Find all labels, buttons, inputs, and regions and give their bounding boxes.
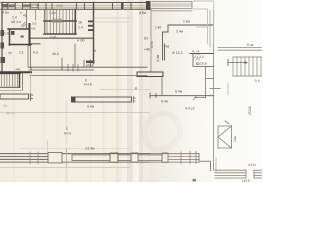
stair S1 mid rail	[44, 20, 76, 22]
svg-text:4.9: 4.9	[33, 51, 38, 55]
bottom band window boxes	[72, 155, 110, 161]
stair S2 right wall	[19, 74, 21, 88]
svg-text:13.3м: 13.3м	[85, 147, 95, 151]
band crossing ticks	[189, 152, 191, 164]
stair S2 bottom rail	[0, 86, 20, 88]
svg-text:ч.б.: ч.б.	[31, 27, 36, 31]
hall right wall	[213, 11, 215, 171]
hall top band faint lines	[152, 1, 192, 3]
stair S3 treads	[233, 57, 261, 76]
svg-text:16: 16	[78, 21, 82, 25]
top band dividers	[8, 3, 131, 10]
section bar 1 end mark	[31, 94, 34, 101]
faint building outline inner	[193, 9, 208, 44]
svg-text:2.Чб: 2.Чб	[50, 35, 57, 39]
svg-text:НЧ б: НЧ б	[64, 132, 71, 136]
faint line above band	[20, 148, 130, 150]
closet annex vertical	[205, 67, 207, 99]
hall right wall faint	[209, 11, 211, 47]
corridor band ticks	[68, 65, 78, 72]
svg-text:4.4м: 4.4м	[156, 54, 160, 62]
faint lines right of building	[94, 17, 130, 19]
svg-text:Ф 16.2: Ф 16.2	[172, 51, 183, 55]
bottom band lines mid	[62, 154, 150, 162]
hall left faint wall	[150, 9, 152, 73]
faint line below band	[0, 166, 130, 168]
top window band mid lines	[2, 4, 148, 6]
svg-text:9.4м: 9.4м	[175, 90, 183, 94]
svg-text:1.4б: 1.4б	[155, 26, 161, 30]
stair S1 treads upper flight	[47, 10, 73, 21]
section bar 1	[0, 94, 29, 99]
top window band inner bottom line	[1, 8, 150, 10]
lower window band right	[215, 170, 262, 178]
svg-text:2.5: 2.5	[19, 51, 24, 55]
wall tick y88	[210, 88, 220, 90]
section bar 2 end mark	[134, 97, 136, 103]
svg-text:1.9: 1.9	[4, 32, 9, 36]
wall end block right	[86, 61, 95, 64]
right wall of left building	[93, 3, 95, 64]
faint line y89.5	[100, 89, 150, 91]
door jamb dash 2	[21, 36, 24, 38]
interior verticals above corridor	[61, 58, 63, 67]
section bar 2	[73, 97, 132, 102]
wall y43.5 right of room	[31, 43, 40, 45]
faint long line y112	[0, 112, 150, 114]
ghost watermark	[145, 113, 180, 150]
stair S1 treads lower flight	[47, 22, 73, 34]
svg-text:14а: 14а	[233, 136, 237, 142]
paper crease streaks	[13, 0, 149, 182]
top band pier fills	[2, 4, 8, 7]
hall inner line y10.5	[151, 10, 192, 12]
left exterior wall	[1, 3, 3, 74]
faint vertical above pier	[47, 141, 49, 152]
svg-text:8: 8	[135, 87, 137, 91]
bottom band left ticks	[29, 152, 31, 164]
faint building outline outer	[193, 1, 214, 44]
shaft symbol box	[218, 126, 232, 148]
counter bar	[137, 72, 163, 77]
svg-text:ЧВ: ЧВ	[165, 45, 169, 49]
svg-text:5.4м: 5.4м	[176, 30, 184, 34]
svg-text:4.94: 4.94	[49, 11, 56, 15]
stair S1 right wall	[74, 10, 76, 35]
svg-text:4 Об: 4 Об	[77, 39, 84, 43]
svg-text:цв: цв	[8, 51, 12, 55]
svg-text:УН-: УН-	[3, 104, 8, 108]
svg-text:8.4б: 8.4б	[161, 100, 168, 104]
bottom band pier gap box	[48, 152, 62, 163]
top window band outer top line	[1, 2, 150, 4]
stair S2 top wall	[0, 73, 20, 75]
room divider vertical x26.5	[26, 10, 28, 29]
stair S1 bottom rail	[44, 33, 76, 35]
inner room left wall segment2	[164, 44, 166, 60]
svg-text:2.4: 2.4	[12, 16, 17, 20]
stair S2 treads	[2, 74, 18, 87]
svg-text:АН Уч: АН Уч	[6, 112, 15, 116]
bottom band lines mid-right fade	[150, 154, 199, 162]
svg-text:+4%: +4%	[14, 68, 21, 72]
section bar 2 left cap	[71, 97, 76, 103]
faint vertical below stairs	[227, 83, 229, 95]
long thin line y75.5	[30, 75, 147, 77]
closet annex tick	[206, 78, 214, 80]
closet annex bottom	[194, 96, 206, 100]
stair S3 top rail	[233, 56, 262, 58]
left wall pier blocks	[1, 30, 5, 36]
bottom edge mark	[193, 179, 197, 182]
stair S3 direction arrow	[228, 61, 247, 64]
svg-text:Ь у: Ь у	[255, 79, 260, 83]
svg-text:4.5п: 4.5п	[150, 41, 154, 48]
svg-text:5: 5	[66, 127, 68, 131]
corridor band bottom line	[29, 69, 94, 71]
corridor band top line	[29, 66, 147, 68]
hall top band end vertical	[191, 2, 193, 9]
svg-text:4 Би: 4 Би	[139, 11, 146, 15]
inner room left wall upper	[167, 25, 169, 32]
svg-text:2.9м: 2.9м	[183, 20, 191, 24]
svg-text:8: 8	[85, 79, 87, 83]
wall step bottom right	[199, 154, 211, 171]
svg-text:1.5: 1.5	[196, 52, 201, 56]
faint vertical x30 lower	[30, 72, 32, 100]
paper background	[0, 0, 262, 182]
stair S3 bottom rail	[233, 75, 262, 77]
svg-text:НЧ.б: НЧ.б	[86, 64, 94, 68]
svg-text:(13.5: (13.5	[242, 179, 250, 182]
svg-text:1.6: 1.6	[32, 22, 37, 26]
hall bottom line ticks	[149, 93, 151, 98]
closet left	[192, 54, 194, 67]
svg-text:4.1%: 4.1%	[248, 163, 256, 167]
svg-text:2.5: 2.5	[196, 57, 201, 61]
svg-text:4-3-у2: 4-3-у2	[185, 107, 195, 111]
hall mid vertical	[161, 76, 163, 95]
bottom band lines left	[0, 154, 48, 162]
stair S1 landing label	[52, 19, 62, 24]
wall V1 x9.5	[9, 29, 11, 45]
inner room jog	[163, 31, 169, 33]
wall H1 y29	[8, 28, 30, 30]
corridor band end verticals	[30, 67, 32, 70]
door jamb rect	[11, 31, 15, 35]
svg-text:25/28: 25/28	[248, 106, 252, 115]
faint divider x35.5	[35, 10, 37, 21]
faint line below S2	[0, 90, 22, 92]
corridor wall y72 dark left	[0, 71, 31, 73]
svg-text:9.4м: 9.4м	[87, 105, 95, 109]
svg-text:1.4: 1.4	[196, 62, 201, 66]
svg-text:+4б: +4б	[144, 48, 150, 52]
faint inner tick	[196, 26, 208, 28]
shaft top tick	[225, 121, 229, 124]
svg-text:АВ 4-6: АВ 4-6	[11, 20, 21, 24]
svg-text:2.4: 2.4	[78, 26, 83, 30]
stair S1 left wall	[44, 10, 46, 35]
svg-text:НЧ А: НЧ А	[84, 83, 93, 87]
column pair x28-30.5	[27, 46, 29, 67]
closet bottom	[194, 66, 214, 68]
upper right wall double line	[218, 47, 262, 49]
shaft symbol zigzag diagonals	[218, 126, 232, 148]
wall H2 y44.5	[10, 44, 32, 46]
hall bottom line y95.5	[150, 95, 214, 97]
svg-text:4 Би: 4 Би	[2, 11, 9, 15]
svg-text:8 пв: 8 пв	[247, 43, 254, 47]
thick wall V2 x29.5	[29, 24, 31, 45]
svg-text:49: 49	[23, 14, 27, 18]
faint vertical x66	[66, 149, 68, 167]
door dashes right wall	[88, 21, 93, 23]
inner room left wall lower	[162, 32, 164, 60]
svg-text:4б.4: 4б.4	[52, 52, 59, 56]
wall y38 mid	[31, 37, 94, 39]
inner room top line	[168, 24, 213, 26]
door swing ticks	[21, 23, 27, 28]
closet top	[190, 53, 213, 55]
